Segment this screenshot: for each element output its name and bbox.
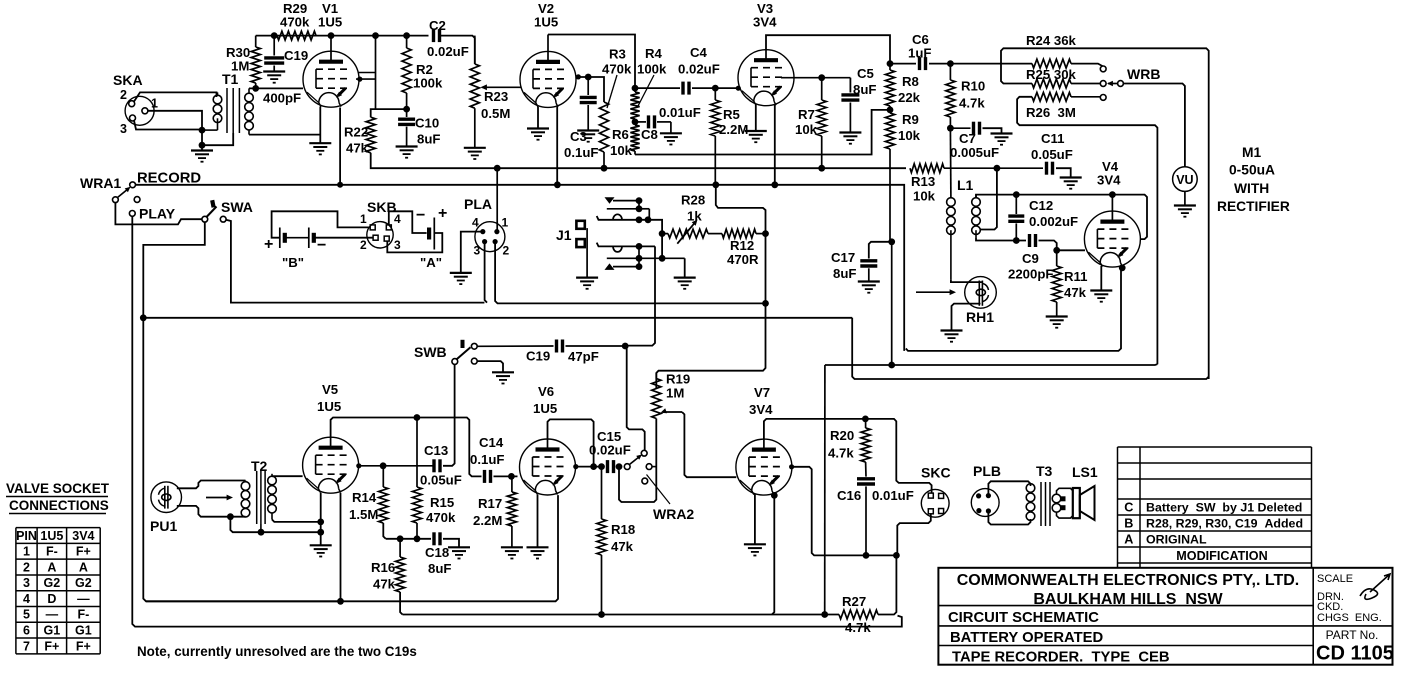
- svg-text:R8: R8: [902, 74, 919, 89]
- svg-text:2: 2: [120, 88, 127, 102]
- node R11 top: [1053, 247, 1060, 254]
- wire V6 filament right: [146, 495, 558, 601]
- node J1 a5: [636, 255, 666, 262]
- node C11 junction: [994, 165, 1001, 172]
- svg-text:C13: C13: [424, 443, 448, 458]
- svg-text:SWA: SWA: [221, 199, 253, 215]
- svg-text:Note, currently unresolved are: Note, currently unresolved are the two C…: [137, 644, 417, 659]
- node play rail junction: [140, 314, 147, 321]
- node R4 top: [632, 85, 639, 92]
- svg-text:C4: C4: [690, 45, 708, 60]
- resistor R2: [402, 36, 443, 110]
- node R4 R6 junction: [632, 119, 639, 126]
- node V6 anode junction: [590, 463, 597, 470]
- wire V2 filament left: [537, 107, 539, 129]
- node C19 J1 junction: [622, 343, 629, 350]
- svg-text:1: 1: [23, 545, 30, 559]
- wire R12 vertical down: [656, 234, 765, 388]
- wire L1 bottom line: [976, 238, 1026, 241]
- node V1 g2 rail: [372, 32, 379, 39]
- capacitor C3 0.1uF: [564, 77, 598, 160]
- capacitor C10 8uF: [398, 109, 440, 146]
- wire V6 filament left: [537, 495, 539, 548]
- tube V2: [520, 1, 576, 107]
- jack J1 contact arm 3: [597, 214, 648, 219]
- svg-text:0-50uA: 0-50uA: [1229, 163, 1275, 178]
- resistor R6: [610, 119, 640, 158]
- resistor R9: [885, 112, 920, 242]
- wire anode feed to SKC: [865, 419, 931, 493]
- wire V2 anode: [548, 35, 635, 87]
- node R2 C10 junction: [403, 106, 410, 113]
- wire J1 record line down: [628, 246, 655, 345]
- svg-text:R12: R12: [730, 238, 754, 253]
- label M1: [1217, 145, 1290, 214]
- wire RECORD line: [136, 185, 905, 351]
- svg-text:F-: F-: [77, 608, 89, 622]
- wire R6 bottom rail: [635, 110, 888, 155]
- wire R22 top to C10 node: [371, 109, 407, 117]
- svg-text:PU1: PU1: [150, 518, 177, 534]
- node C6 left: [887, 60, 894, 67]
- resistor R5: [711, 88, 749, 185]
- node V2 g2: [576, 74, 592, 81]
- transformer T1 core: [227, 88, 239, 133]
- wire V5 g2 line: [356, 463, 433, 468]
- svg-text:0.1uF: 0.1uF: [470, 452, 504, 467]
- ground RH1: [941, 331, 963, 342]
- svg-text:R24 36k: R24 36k: [1026, 33, 1077, 48]
- svg-text:WRA1: WRA1: [80, 175, 121, 191]
- svg-text:R10: R10: [961, 79, 985, 94]
- svg-text:47k: 47k: [346, 141, 369, 156]
- svg-text:−: −: [416, 207, 425, 224]
- svg-text:0.1uF: 0.1uF: [564, 145, 598, 160]
- resistor R30: [226, 36, 260, 89]
- svg-text:G2: G2: [44, 576, 61, 590]
- wire T1 secondary bottom to ground: [249, 134, 320, 136]
- svg-text:R20: R20: [830, 428, 854, 443]
- node C7 junction: [947, 125, 954, 132]
- node R7 bottom: [818, 165, 825, 172]
- svg-text:3: 3: [394, 238, 401, 252]
- resistor R29: [277, 1, 316, 40]
- svg-text:M1: M1: [1242, 145, 1261, 160]
- svg-text:3: 3: [474, 244, 481, 258]
- svg-text:1M: 1M: [666, 386, 684, 401]
- wire J1 bus a456: [638, 246, 640, 266]
- node T2 core shield: [258, 529, 265, 536]
- svg-text:470k: 470k: [280, 15, 310, 30]
- ground V1 filament: [309, 143, 331, 154]
- svg-text:PLB: PLB: [973, 463, 1001, 479]
- wire V5 anode line: [331, 418, 482, 477]
- svg-text:6: 6: [23, 623, 30, 637]
- resistor R10: [946, 64, 986, 129]
- resistor R20: [828, 419, 870, 477]
- wire L1 to RH1: [951, 280, 982, 282]
- node R15 bottom: [414, 535, 421, 542]
- wire PLA pin2 down: [495, 242, 763, 304]
- svg-text:TAPE RECORDER. TYPE CEB: TAPE RECORDER. TYPE CEB: [952, 650, 1170, 666]
- ground C8: [660, 133, 682, 144]
- svg-text:400pF: 400pF: [263, 91, 301, 106]
- jack J1 contact arm 4: [597, 243, 655, 252]
- svg-text:C7: C7: [959, 131, 976, 146]
- wire V4 filament right: [906, 264, 1126, 351]
- wire V2 g2 to R3: [577, 77, 605, 102]
- wire WRA2 mid contact stub: [652, 466, 656, 468]
- ground R11: [1046, 317, 1068, 328]
- svg-text:VALVE SOCKET: VALVE SOCKET: [6, 481, 110, 496]
- meter VU: [1173, 167, 1198, 192]
- svg-text:4: 4: [472, 216, 479, 230]
- node R30 bottom: [252, 85, 259, 92]
- node R12 right: [762, 230, 769, 237]
- node pin2 line to R12 vertical: [762, 300, 769, 307]
- jack J1 frame: [556, 221, 587, 278]
- node J1 a1: [636, 197, 643, 204]
- resistor R27 4.7k: [839, 555, 896, 635]
- svg-text:B: B: [1124, 517, 1133, 531]
- node R16 top: [397, 535, 404, 542]
- wire V2 cathode: [556, 107, 558, 186]
- svg-text:SKC: SKC: [921, 465, 951, 481]
- svg-text:1: 1: [502, 216, 509, 230]
- capacitor C8 0.01uF: [635, 105, 701, 142]
- wire V1 filament left: [319, 107, 321, 144]
- wire V7 filament right: [772, 495, 774, 614]
- svg-text:1k: 1k: [687, 209, 702, 224]
- wiper arrow R19: [661, 408, 737, 477]
- svg-text:R23: R23: [484, 89, 508, 104]
- resistor R18: [597, 467, 635, 615]
- wire T2 core shield: [260, 524, 262, 532]
- node R12 top record: [712, 181, 719, 188]
- wire SKB pin4 to battery A: [389, 211, 427, 233]
- node R28 left: [659, 230, 666, 237]
- svg-text:0.02uF: 0.02uF: [678, 62, 720, 77]
- wire V7 anode line: [764, 419, 863, 440]
- svg-text:3V4: 3V4: [753, 15, 777, 30]
- connector SKB: [360, 212, 401, 252]
- svg-text:47pF: 47pF: [568, 349, 599, 364]
- resistor R26 zigzag: [1026, 92, 1100, 120]
- wire core to shield: [202, 133, 233, 145]
- svg-text:1.5M: 1.5M: [349, 507, 378, 522]
- transformer T2 label: [251, 458, 268, 474]
- node V4 anode top: [1109, 191, 1116, 198]
- wire battery A plus: [387, 233, 442, 252]
- svg-text:4: 4: [23, 592, 30, 606]
- svg-text:R27: R27: [842, 594, 866, 609]
- svg-text:R19: R19: [666, 372, 690, 387]
- ground V4 filament: [1090, 291, 1112, 302]
- svg-text:—: —: [77, 592, 90, 606]
- node V3 fil record: [771, 181, 778, 188]
- svg-text:F+: F+: [44, 639, 59, 653]
- svg-text:470k: 470k: [602, 62, 632, 77]
- svg-text:C16: C16: [837, 488, 861, 503]
- svg-text:2: 2: [503, 244, 510, 258]
- tube V5: [303, 382, 359, 493]
- capacitor C2 0.02uF: [427, 18, 469, 59]
- svg-text:0.01uF: 0.01uF: [659, 105, 701, 120]
- svg-text:PLA: PLA: [464, 196, 492, 212]
- ground C18: [448, 547, 470, 558]
- ground R23: [464, 148, 486, 159]
- svg-text:10k: 10k: [913, 189, 936, 204]
- svg-text:CONNECTIONS: CONNECTIONS: [9, 498, 109, 513]
- node R8 R9 junction: [887, 107, 894, 114]
- capacitor C19 47pF: [526, 340, 623, 365]
- svg-text:D: D: [47, 592, 56, 606]
- note text: [137, 644, 417, 659]
- node C12 bottom: [1013, 237, 1020, 244]
- svg-text:C12: C12: [1029, 198, 1053, 213]
- svg-text:RECTIFIER: RECTIFIER: [1217, 199, 1290, 214]
- transformer T1 secondary coil: [245, 88, 254, 134]
- svg-text:4.7k: 4.7k: [828, 446, 854, 461]
- wire R12 up to record: [716, 185, 766, 234]
- svg-text:WRB: WRB: [1127, 66, 1160, 82]
- node V1 anode top: [328, 32, 335, 39]
- pickup PU1: [150, 482, 182, 534]
- svg-text:3: 3: [23, 576, 30, 590]
- svg-text:C9: C9: [1022, 251, 1039, 266]
- tube V7: [736, 385, 792, 495]
- wire top rail: [256, 35, 429, 37]
- svg-text:100k: 100k: [413, 76, 443, 91]
- wire V4 anode: [1111, 195, 1113, 212]
- ground C7: [991, 134, 1013, 145]
- wire shield line: [230, 517, 318, 533]
- svg-text:J1: J1: [556, 227, 572, 243]
- wire V6 anode line: [548, 419, 594, 466]
- switch WRA1: [80, 171, 201, 222]
- svg-text:C11: C11: [1041, 131, 1064, 146]
- resistor R7: [795, 78, 826, 169]
- node R3 bottom: [601, 165, 608, 172]
- svg-text:3V4: 3V4: [749, 402, 773, 417]
- svg-text:COMMONWEALTH ELECTRONICS PTY,.: COMMONWEALTH ELECTRONICS PTY,. LTD.: [957, 572, 1300, 589]
- svg-text:R28, R29, R30, C19 Added: R28, R29, R30, C19 Added: [1146, 517, 1303, 531]
- wire J1 line5 ground: [684, 258, 686, 277]
- node V1 fil record: [337, 182, 343, 188]
- svg-text:4.7k: 4.7k: [959, 96, 985, 111]
- wire V3 filament left: [755, 105, 757, 132]
- svg-text:BATTERY OPERATED: BATTERY OPERATED: [950, 630, 1103, 646]
- resistor R25 30k zigzag: [1026, 33, 1103, 82]
- switch SWB: [414, 340, 477, 365]
- jack J1 line 5: [607, 257, 685, 259]
- svg-text:0.02uF: 0.02uF: [589, 443, 631, 458]
- node PLA pin1 rail: [494, 165, 501, 172]
- ground C10: [396, 147, 418, 158]
- svg-text:F+: F+: [76, 545, 91, 559]
- svg-text:C5: C5: [857, 66, 874, 81]
- wire SKA pin1: [148, 111, 203, 130]
- svg-text:7: 7: [23, 639, 30, 653]
- ground V7 filament: [744, 544, 766, 555]
- svg-text:3V4: 3V4: [72, 529, 94, 543]
- svg-text:8uF: 8uF: [428, 561, 451, 576]
- potentiometer R19: [652, 372, 691, 419]
- svg-text:R26 3M: R26 3M: [1026, 105, 1076, 120]
- svg-text:A: A: [79, 560, 88, 574]
- wire SWB pole to C13: [443, 364, 455, 465]
- capacitor C17 8uF: [831, 242, 892, 282]
- wire RH1 to ground: [952, 304, 981, 331]
- svg-text:2: 2: [23, 560, 30, 574]
- node PLA1 crossing: [554, 181, 561, 188]
- svg-text:PLAY: PLAY: [139, 206, 176, 222]
- svg-text:R4: R4: [645, 46, 663, 61]
- connector PLA: [464, 196, 510, 258]
- connector SKA: [113, 72, 158, 136]
- ground V2 filament: [527, 129, 549, 140]
- wire junction down: [201, 130, 203, 145]
- node R2 top: [403, 32, 410, 39]
- node C6 right R10: [947, 60, 954, 67]
- wire SWA pole down: [143, 222, 340, 601]
- node R5 top: [712, 85, 719, 92]
- resistor R8: [885, 64, 920, 110]
- svg-text:1U5: 1U5: [40, 529, 63, 543]
- tube V3: [738, 1, 794, 106]
- arrow PU1 signal: [206, 495, 233, 501]
- switch WRB contacts: [1100, 66, 1160, 100]
- record head arrow: [916, 289, 956, 295]
- svg-text:RH1: RH1: [966, 309, 994, 325]
- svg-text:PART No.: PART No.: [1326, 628, 1379, 642]
- resistor R17: [473, 476, 517, 547]
- wire J1 bus a12: [638, 201, 640, 209]
- wire V5 filament left: [320, 493, 322, 546]
- wire heater line: [825, 364, 892, 366]
- wire L1 tap: [980, 168, 997, 229]
- resistor R4: [630, 46, 667, 119]
- svg-text:R7: R7: [798, 107, 815, 122]
- capacitor C16 0.01uF: [837, 479, 914, 556]
- ground V6 filament: [527, 547, 549, 558]
- node R7 top: [818, 74, 825, 81]
- svg-text:0.01uF: 0.01uF: [872, 488, 914, 503]
- tube V1: [303, 1, 359, 107]
- node J1 a2: [636, 205, 643, 212]
- resistor R13: [910, 164, 944, 204]
- wire R9 bottom to heater line: [891, 242, 893, 365]
- wire V1 g2 to rail: [356, 36, 376, 110]
- jack J1 arm 1 triangle: [605, 197, 640, 204]
- svg-text:WRA2: WRA2: [653, 506, 694, 522]
- wire R25 line: [950, 63, 1032, 65]
- svg-text:R3: R3: [609, 47, 626, 62]
- wire SWB to C19: [477, 345, 553, 347]
- wire C4 to V3 grid: [692, 86, 741, 91]
- capacitor C11 0.05uF: [997, 131, 1073, 178]
- wire T2 secondary bottom: [272, 520, 318, 522]
- resistor R11: [1052, 250, 1087, 316]
- ground PLA pin4: [450, 273, 472, 284]
- node R14 top: [380, 462, 387, 469]
- capacitor C9 2200pF: [1008, 234, 1085, 282]
- wire battery B minus: [314, 237, 373, 239]
- wire R22 bottom corner: [371, 153, 428, 168]
- svg-text:R14: R14: [352, 490, 377, 505]
- svg-text:1U5: 1U5: [533, 401, 557, 416]
- node shield junction: [199, 142, 206, 149]
- svg-text:T3: T3: [1036, 463, 1053, 479]
- wire V6 g2 line: [573, 464, 604, 469]
- transformer T2 core: [257, 471, 265, 524]
- wire T2 secondary top to V5 grid: [272, 475, 303, 477]
- ground C19: [263, 72, 285, 83]
- capacitor C7 0.005uF: [950, 122, 1002, 160]
- node R17 top: [508, 473, 515, 480]
- svg-text:−: −: [317, 237, 326, 254]
- svg-text:10k: 10k: [610, 143, 633, 158]
- svg-text:F+: F+: [76, 639, 91, 653]
- svg-text:0.002uF: 0.002uF: [1029, 214, 1078, 229]
- tube V6: [520, 384, 576, 495]
- wire J1 to R28: [648, 220, 662, 258]
- svg-text:"A": "A": [420, 255, 442, 270]
- svg-text:470k: 470k: [426, 510, 456, 525]
- wire SKC return: [896, 514, 930, 556]
- node C16 bottom: [863, 552, 870, 559]
- wire SWB contact2 to ground: [477, 361, 503, 372]
- svg-text:100k: 100k: [637, 62, 667, 77]
- wire V3 cathode: [774, 105, 776, 185]
- resistor R14: [349, 466, 388, 539]
- transformer T1 label: [222, 71, 239, 87]
- wire junction to WRA2 contact: [627, 349, 645, 451]
- wire C2 to R23: [440, 36, 475, 64]
- svg-text:0.005uF: 0.005uF: [950, 145, 999, 160]
- svg-text:C18: C18: [425, 545, 449, 560]
- svg-text:3: 3: [120, 122, 127, 136]
- wire WRB pole to VU: [1123, 84, 1185, 167]
- ground V3 filament: [745, 131, 767, 142]
- wire R24 loop: [1001, 48, 1209, 379]
- svg-text:0.02uF: 0.02uF: [427, 44, 469, 59]
- svg-text:BAULKHAM HILLS NSW: BAULKHAM HILLS NSW: [1033, 591, 1223, 608]
- svg-text:2.2M: 2.2M: [719, 122, 748, 137]
- svg-text:SKB: SKB: [367, 199, 397, 215]
- inductor L1 right winding: [972, 195, 981, 238]
- node R18 bottom: [598, 611, 605, 618]
- ground J1 line5: [674, 278, 696, 289]
- node T1 bottom junction: [199, 127, 206, 134]
- capacitor C12 0.002uF: [1008, 195, 1078, 241]
- svg-text:C19: C19: [526, 349, 550, 364]
- svg-text:10k: 10k: [795, 122, 818, 137]
- svg-text:R22: R22: [344, 125, 368, 140]
- svg-text:WITH: WITH: [1234, 181, 1269, 196]
- revision table: [1118, 447, 1312, 568]
- wire SKA pin3: [134, 121, 202, 130]
- speaker LS1: [1057, 464, 1098, 520]
- svg-text:—: —: [46, 608, 59, 622]
- capacitor C6 1uF: [890, 32, 950, 70]
- svg-text:1U5: 1U5: [534, 15, 558, 30]
- transformer T3 core: [1041, 482, 1050, 526]
- wire screen rail: [428, 167, 906, 169]
- svg-text:V5: V5: [322, 382, 338, 397]
- wire PLB to T3 bottom: [988, 511, 1030, 525]
- resistor R15: [412, 418, 456, 539]
